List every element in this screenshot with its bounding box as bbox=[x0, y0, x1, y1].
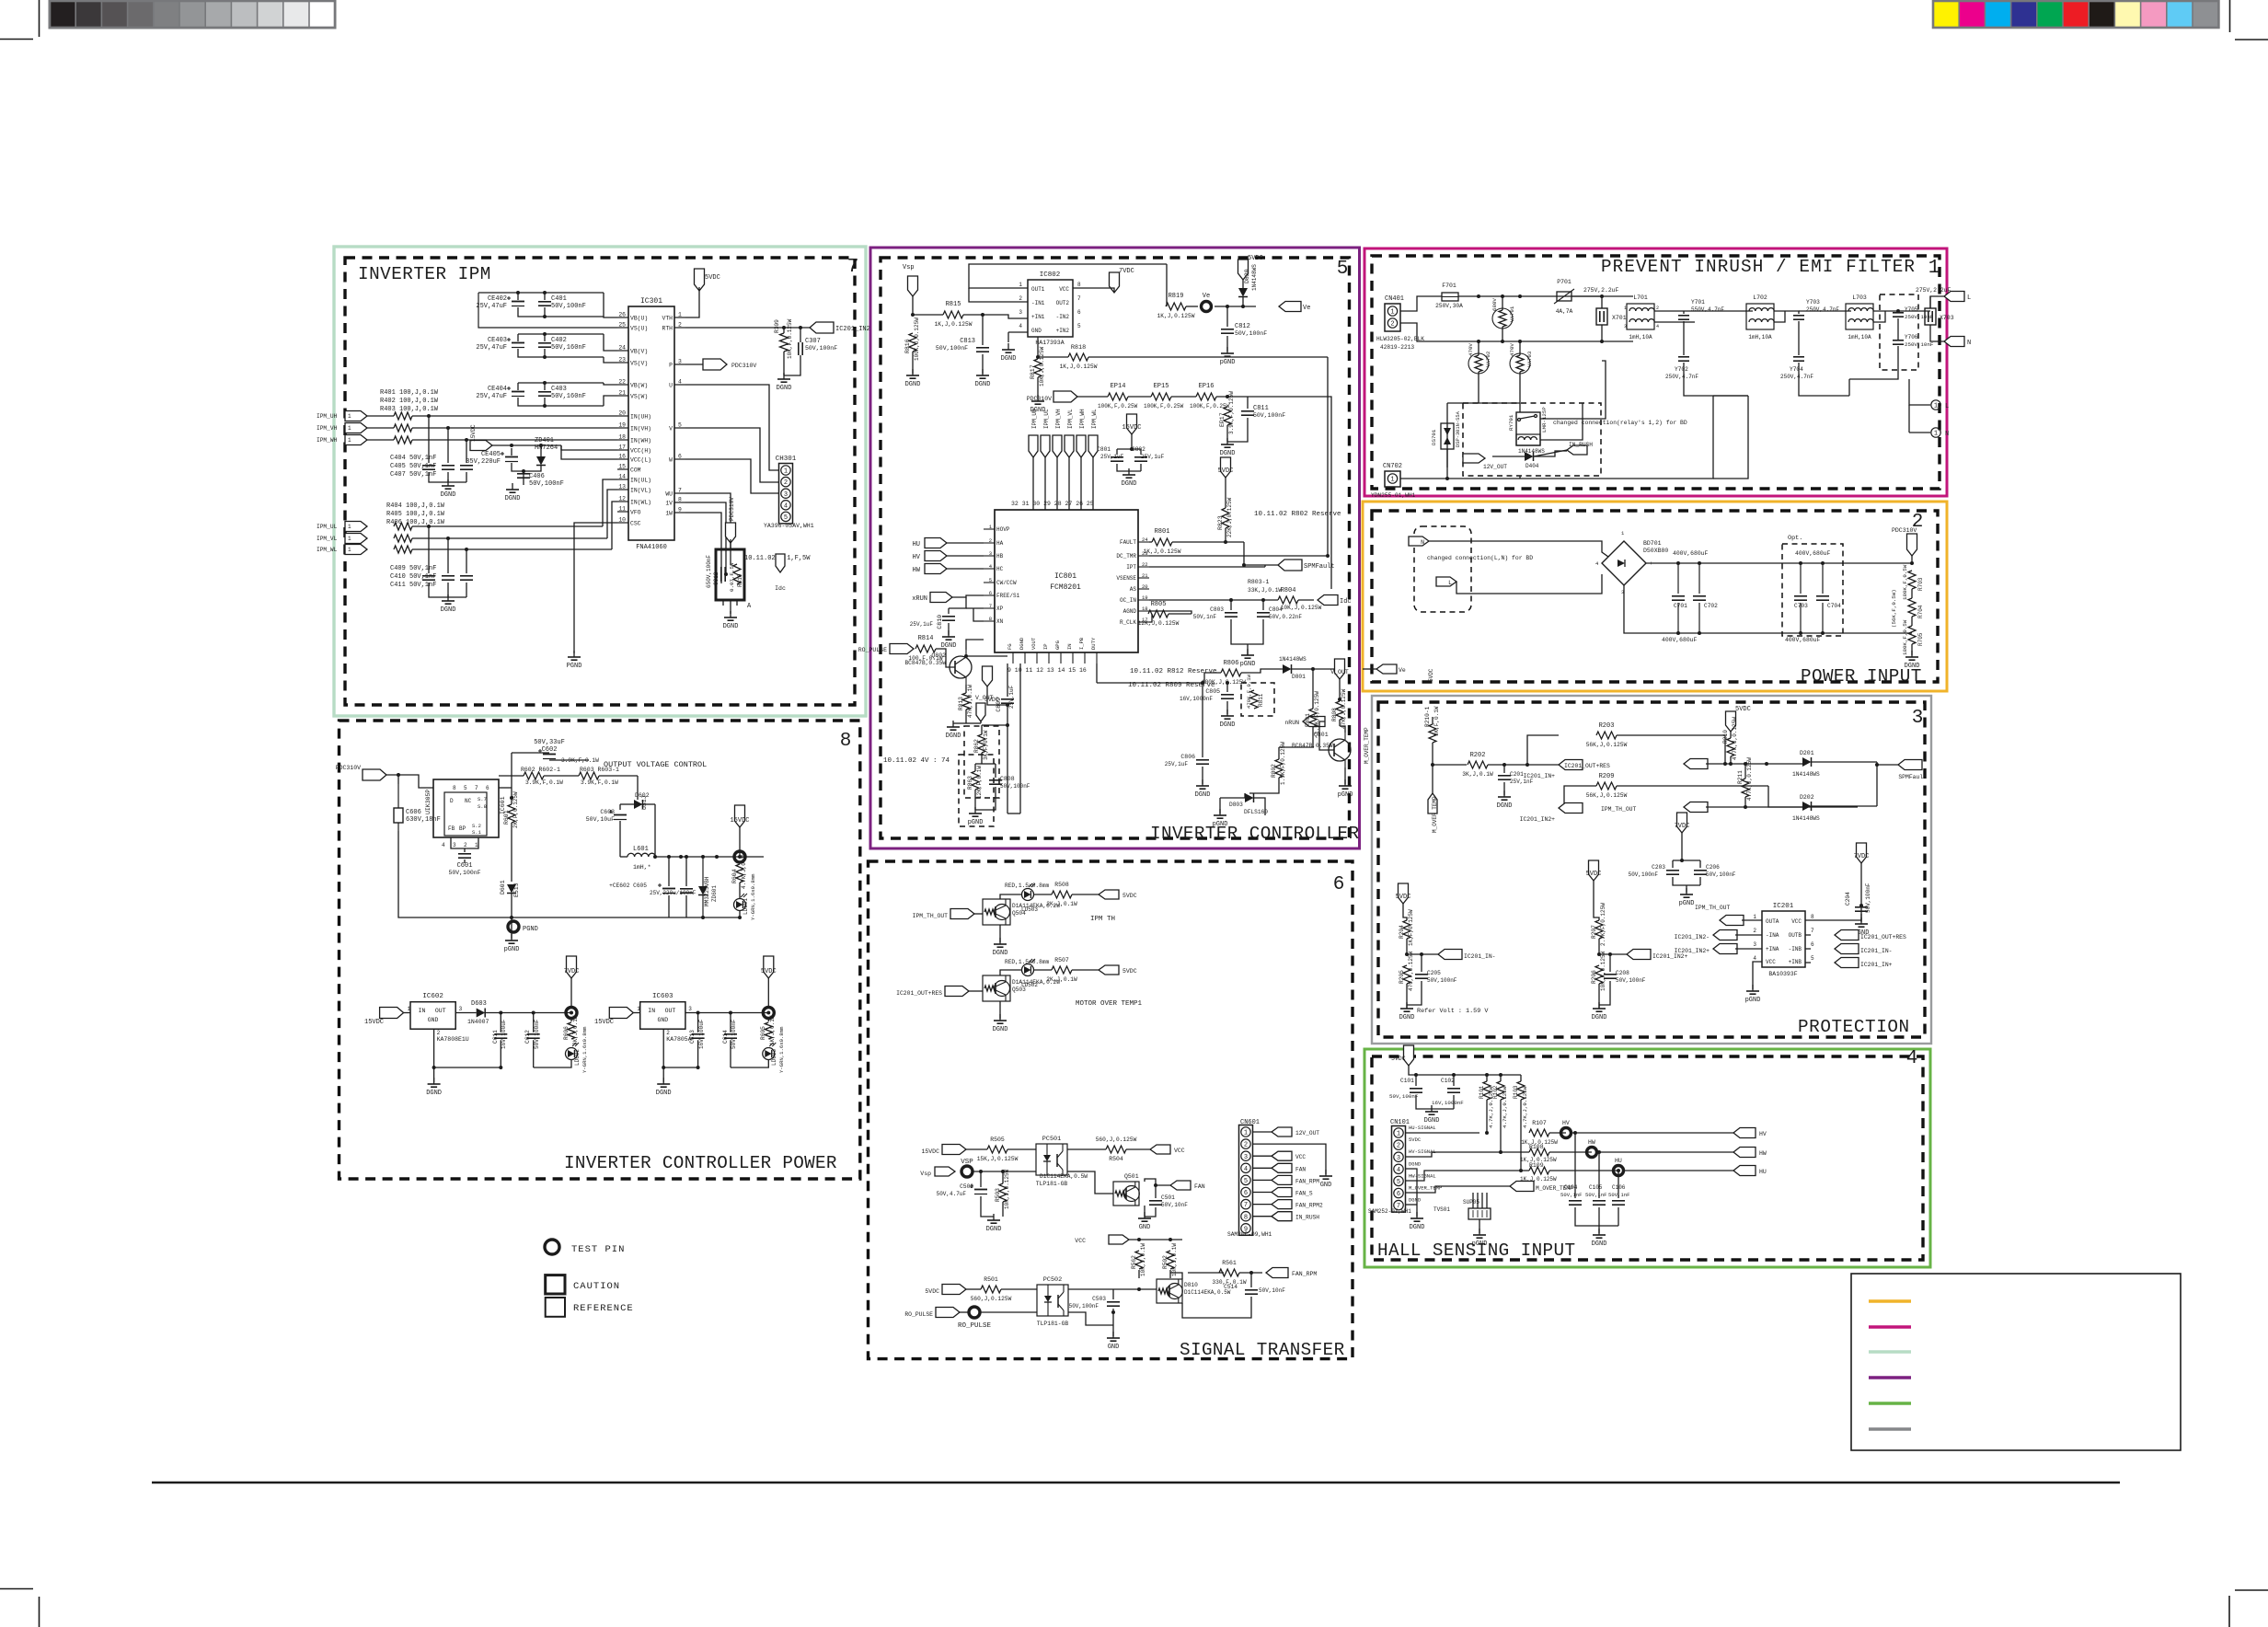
svg-text:OUTA: OUTA bbox=[1766, 918, 1779, 925]
svg-text:Y-GRN,1.6x0.8mm: Y-GRN,1.6x0.8mm bbox=[750, 873, 756, 920]
svg-text:10.11.02 R812 Reserve: 10.11.02 R812 Reserve bbox=[1130, 668, 1217, 675]
resistor R562 bbox=[1135, 1251, 1143, 1269]
resistor R819 bbox=[1166, 303, 1186, 310]
wire c514 bbox=[1250, 1273, 1252, 1287]
resistor R811v bbox=[1250, 690, 1258, 709]
svg-text:R210: R210 bbox=[1722, 730, 1729, 744]
wire q503 bbox=[969, 990, 983, 992]
svg-text:1.5K,F,0.125W: 1.5K,F,0.125W bbox=[1314, 691, 1320, 734]
ground pGND r863 bbox=[974, 807, 976, 813]
LED LD603 bbox=[763, 1048, 775, 1060]
wire caps upper bbox=[428, 416, 430, 463]
svg-text:650V,100nF: 650V,100nF bbox=[706, 555, 712, 588]
capacitor C806 bbox=[1196, 759, 1209, 761]
capacitor C102 bbox=[1447, 1088, 1460, 1090]
wire ce602 bbox=[668, 857, 670, 886]
svg-text:C801: C801 bbox=[1097, 446, 1111, 453]
tag IC201_IN2 bbox=[810, 322, 834, 333]
wire c801 bbox=[1131, 434, 1133, 449]
wire mover bbox=[1406, 1186, 1510, 1193]
svg-text:R603 R603-1: R603 R603-1 bbox=[580, 767, 619, 773]
svg-text:4.7K,J,0.125W: 4.7K,J,0.125W bbox=[1746, 757, 1753, 801]
power tag 5VDC sec3 bbox=[1726, 711, 1736, 732]
svg-text:WU: WU bbox=[665, 491, 673, 498]
svg-text:CSC: CSC bbox=[630, 521, 641, 527]
svg-text:47K,J,0.125W: 47K,J,0.125W bbox=[1341, 688, 1347, 729]
svg-text:IC201_IN+: IC201_IN+ bbox=[1860, 962, 1893, 968]
svg-text:IC201_IN2+: IC201_IN2+ bbox=[1520, 816, 1556, 823]
svg-text:KA7808E1U: KA7808E1U bbox=[437, 1036, 469, 1043]
IC801 left pins bbox=[984, 528, 995, 530]
svg-text:L: L bbox=[1945, 403, 1949, 410]
resistor R606 bbox=[568, 1022, 575, 1039]
svg-text:19: 19 bbox=[618, 422, 626, 429]
resistor R405 bbox=[394, 535, 412, 542]
tag HV sec5 bbox=[925, 551, 947, 561]
wire c201 bbox=[1503, 765, 1505, 773]
diode D202 bbox=[1802, 802, 1812, 811]
svg-text:C101: C101 bbox=[1400, 1078, 1414, 1084]
svg-text:7: 7 bbox=[1244, 1202, 1248, 1209]
svg-text:3.9K,F,0.125W: 3.9K,F,0.125W bbox=[1228, 391, 1235, 434]
resistor R863 bbox=[972, 771, 979, 790]
svg-text:7VDC: 7VDC bbox=[1675, 823, 1690, 830]
svg-text:250V,10nF: 250V,10nF bbox=[1905, 314, 1934, 320]
svg-text:10K,J,0.1W: 10K,J,0.1W bbox=[1171, 1243, 1178, 1276]
tag 12V_OUT bbox=[1463, 454, 1485, 463]
svg-text:C203: C203 bbox=[1652, 864, 1665, 871]
wire r211 bbox=[1744, 764, 1746, 779]
svg-text:C702: C702 bbox=[1704, 603, 1718, 609]
resistor R507 bbox=[1052, 966, 1072, 974]
IC801 right pins bbox=[1138, 541, 1149, 543]
svg-text:50V,100nF: 50V,100nF bbox=[1865, 883, 1871, 913]
svg-text:R109: R109 bbox=[1529, 1162, 1544, 1169]
svg-text:1mH,10A: 1mH,10A bbox=[1629, 334, 1652, 340]
svg-text:50V,160nF: 50V,160nF bbox=[551, 344, 586, 352]
svg-text:Idc: Idc bbox=[1340, 598, 1352, 606]
wire cn702 bbox=[1400, 478, 1447, 479]
capacitor Y705 bbox=[1893, 312, 1904, 314]
tag IC201_IN- c bbox=[1835, 944, 1859, 954]
svg-text:5: 5 bbox=[1811, 955, 1814, 962]
svg-text:pGND: pGND bbox=[1472, 1240, 1488, 1248]
grayscale calibration bar bbox=[50, 1, 335, 28]
wire CE404 group bbox=[517, 383, 519, 390]
wire 1W down bbox=[685, 513, 721, 583]
svg-text:25V,1uF: 25V,1uF bbox=[910, 621, 934, 628]
svg-text:1: 1 bbox=[348, 536, 351, 542]
section 2 group bbox=[1363, 526, 1924, 682]
tag M_OVER_TEMP sec4 bbox=[1510, 1182, 1534, 1192]
svg-text:DUTY: DUTY bbox=[1090, 637, 1097, 650]
svg-text:Y706: Y706 bbox=[1905, 334, 1918, 340]
svg-text:CH301: CH301 bbox=[776, 456, 797, 463]
svg-text:20: 20 bbox=[1142, 583, 1148, 590]
svg-text:NC: NC bbox=[465, 798, 472, 804]
capacitor Y703 bbox=[1793, 315, 1804, 317]
wire d820 bbox=[1242, 280, 1244, 288]
capacitor C205 bbox=[1415, 974, 1428, 975]
svg-text:2K,J,0.1W: 2K,J,0.1W bbox=[572, 1015, 579, 1045]
svg-text:6: 6 bbox=[1397, 1191, 1400, 1198]
wire r823 bbox=[1225, 478, 1226, 508]
tag Ve out bbox=[1279, 302, 1301, 312]
wire d803 bbox=[1244, 793, 1246, 798]
wire c803 bbox=[1230, 600, 1232, 610]
svg-text:25V,1uF: 25V,1uF bbox=[1100, 454, 1124, 460]
svg-text:D820: D820 bbox=[1244, 269, 1250, 283]
capacitor C406 bbox=[517, 473, 530, 475]
svg-text:15VDC: 15VDC bbox=[470, 424, 477, 442]
svg-text:IPM_WH: IPM_WH bbox=[1079, 409, 1086, 429]
svg-text:PGND: PGND bbox=[523, 926, 538, 933]
svg-text:5VDC: 5VDC bbox=[1396, 894, 1411, 901]
tag HU sec5 bbox=[925, 538, 947, 548]
svg-text:RED,1.5x0.8mm: RED,1.5x0.8mm bbox=[1005, 883, 1050, 889]
svg-text:VCC: VCC bbox=[1075, 1238, 1086, 1244]
wire r862 net bbox=[981, 725, 983, 734]
LED LD602 bbox=[566, 1048, 578, 1060]
svg-text:IN(VH): IN(VH) bbox=[630, 426, 651, 433]
LED LD601 bbox=[734, 899, 746, 911]
tag IC201_IN+ c bbox=[1835, 958, 1859, 968]
ground pGND ic201 bbox=[1752, 985, 1754, 991]
svg-text:FREE/S1: FREE/S1 bbox=[996, 593, 1020, 599]
svg-text:RTH: RTH bbox=[662, 326, 673, 332]
wire hall hv bbox=[1406, 1152, 1529, 1157]
svg-text:10K,F,0.125W: 10K,F,0.125W bbox=[1600, 951, 1606, 991]
capacitor C801 C802 bbox=[1111, 456, 1123, 458]
wire relay stub bbox=[1492, 456, 1525, 457]
caution dashed box R863 bbox=[959, 755, 994, 826]
tags IPM_xx column bbox=[1029, 435, 1038, 457]
wire r561 bbox=[1239, 1272, 1262, 1274]
svg-text:4: 4 bbox=[1906, 1048, 1918, 1069]
svg-text:+INB: +INB bbox=[1789, 959, 1802, 965]
svg-text:9 10 11 12 13 14 15 16: 9 10 11 12 13 14 15 16 bbox=[1007, 667, 1087, 674]
svg-text:R203: R203 bbox=[1599, 722, 1615, 730]
svg-text:C409 50V,1nF: C409 50V,1nF bbox=[390, 565, 436, 572]
transistor Q503 bbox=[983, 975, 1010, 1001]
svg-text:50V,0.22nF: 50V,0.22nF bbox=[1269, 614, 1302, 620]
tag Vsp sec6 bbox=[935, 1167, 955, 1176]
svg-text:GND: GND bbox=[1320, 1182, 1332, 1189]
tag HW out bbox=[1733, 1148, 1756, 1158]
wire r205 bbox=[1406, 964, 1408, 966]
svg-text:DGND: DGND bbox=[1122, 480, 1137, 488]
svg-text:VCC(L): VCC(L) bbox=[630, 457, 651, 464]
svg-text:1N4148WS: 1N4148WS bbox=[1792, 771, 1820, 778]
svg-text:Y705: Y705 bbox=[1905, 306, 1918, 313]
svg-text:1: 1 bbox=[678, 312, 682, 318]
svg-text:R605: R605 bbox=[760, 1026, 766, 1040]
wire r202 out bbox=[1488, 764, 1559, 766]
svg-text:FG: FG bbox=[1007, 643, 1013, 650]
tag IPM_TH_OUT b bbox=[1720, 916, 1744, 926]
IC801 bottom pins bbox=[1012, 652, 1014, 663]
svg-text:4: 4 bbox=[442, 842, 445, 848]
wire va701 bbox=[1502, 296, 1503, 310]
svg-text:8: 8 bbox=[453, 785, 456, 791]
inductor L601 bbox=[627, 853, 635, 857]
svg-text:50V,100nF: 50V,100nF bbox=[1427, 977, 1457, 984]
svg-text:C405 50V,1nF: C405 50V,1nF bbox=[390, 463, 436, 470]
svg-text:17: 17 bbox=[618, 444, 626, 451]
svg-text:1mH,10A: 1mH,10A bbox=[1748, 334, 1772, 340]
svg-text:C201: C201 bbox=[1510, 771, 1524, 778]
svg-text:50V,10nF: 50V,10nF bbox=[1161, 1202, 1188, 1208]
svg-text:Q501: Q501 bbox=[1124, 1173, 1139, 1180]
svg-text:25V,220u/100nF: 25V,220u/100nF bbox=[650, 890, 697, 896]
svg-text:1: 1 bbox=[408, 1006, 411, 1012]
svg-text:1: 1 bbox=[637, 1006, 640, 1012]
svg-text:Y701: Y701 bbox=[1691, 299, 1705, 306]
connector CN401 bbox=[1385, 304, 1400, 331]
resistor R703 bbox=[1908, 571, 1916, 589]
wire tag column to IC801 bbox=[1032, 457, 1034, 510]
svg-text:HW: HW bbox=[1759, 1150, 1767, 1157]
svg-text:CN702: CN702 bbox=[1383, 463, 1402, 470]
ground DGND c810 bbox=[948, 630, 950, 637]
resistor R102 bbox=[1497, 1081, 1504, 1100]
tag N out bbox=[1944, 337, 1964, 347]
wire spm bbox=[1244, 564, 1278, 566]
svg-text:C613: C613 bbox=[689, 1030, 696, 1044]
svg-text:R808: R808 bbox=[1331, 708, 1338, 721]
svg-text:HU: HU bbox=[1759, 1169, 1767, 1175]
tag IC201_IN+ a bbox=[1559, 760, 1583, 770]
color calibration bar bbox=[1933, 1, 2218, 28]
svg-text:1: 1 bbox=[1397, 1131, 1400, 1138]
svg-text:RO_PULSE: RO_PULSE bbox=[904, 1311, 933, 1318]
svg-text:5: 5 bbox=[1077, 323, 1081, 329]
svg-text:2.7K,F,0.125W: 2.7K,F,0.125W bbox=[1600, 903, 1606, 946]
svg-text:50V,100nF: 50V,100nF bbox=[1706, 871, 1736, 878]
reference dashed box LN bbox=[1414, 526, 1471, 612]
wire d601 dn bbox=[511, 894, 512, 917]
wire cn401 top bbox=[1400, 296, 1442, 311]
tag PDC310V sec8 bbox=[363, 769, 386, 780]
svg-text:VFO: VFO bbox=[630, 510, 641, 516]
svg-text:R863: R863 bbox=[967, 776, 973, 790]
svg-text:18: 18 bbox=[1142, 606, 1148, 612]
svg-text:5: 5 bbox=[784, 514, 788, 522]
wire CE402 to pin26 bbox=[517, 293, 519, 300]
svg-text:C410 50V,1nF: C410 50V,1nF bbox=[390, 573, 436, 581]
svg-text:VCC: VCC bbox=[1174, 1148, 1185, 1154]
resistor R602 bbox=[524, 772, 544, 779]
LED LD502 bbox=[1022, 964, 1034, 976]
svg-text:HB: HB bbox=[996, 553, 1004, 560]
resistor R817 bbox=[1034, 359, 1042, 377]
tag IC201_IN2+ a bbox=[1559, 803, 1583, 813]
capacitor CE602 C605 bbox=[662, 888, 675, 890]
svg-text:1K,J,0.125W: 1K,J,0.125W bbox=[935, 321, 973, 328]
svg-text:C809: C809 bbox=[996, 698, 1002, 712]
svg-text:IN(WH): IN(WH) bbox=[630, 438, 651, 444]
svg-text:C614: C614 bbox=[722, 1030, 729, 1044]
svg-text:LD601: LD601 bbox=[743, 898, 749, 915]
svg-text:C812: C812 bbox=[1235, 323, 1250, 330]
svg-text:IN(VL): IN(VL) bbox=[630, 488, 651, 494]
wire c601 bbox=[451, 837, 465, 852]
svg-text:50V,100nF: 50V,100nF bbox=[936, 345, 968, 352]
wire r210 node bbox=[1432, 717, 1433, 724]
resistor R805 bbox=[1148, 610, 1169, 617]
svg-text:IC201_IN-: IC201_IN- bbox=[1464, 953, 1496, 960]
svg-text:4.7K,J,0.125W: 4.7K,J,0.125W bbox=[1502, 1086, 1508, 1128]
svg-text:VS(V): VS(V) bbox=[630, 361, 648, 367]
svg-text:R804: R804 bbox=[1281, 587, 1296, 594]
svg-text:R_CLK: R_CLK bbox=[1120, 619, 1136, 626]
IC IC802 bbox=[1028, 280, 1073, 337]
resistor R501 bbox=[981, 1286, 1001, 1293]
svg-text:5: 5 bbox=[1337, 259, 1349, 280]
tag xRUN bbox=[930, 593, 952, 603]
svg-text:R814: R814 bbox=[918, 635, 934, 642]
svg-text:7: 7 bbox=[475, 785, 478, 791]
power tag 7VDC sec3 bbox=[1677, 813, 1687, 833]
capacitor C602 ecap bbox=[543, 754, 556, 756]
svg-text:FNA41060: FNA41060 bbox=[636, 544, 667, 551]
svg-text:25V,1uF: 25V,1uF bbox=[1165, 761, 1189, 767]
svg-text:C208: C208 bbox=[1616, 970, 1629, 976]
wire 15vdc sec8 bbox=[739, 827, 741, 857]
diode ZD401 bbox=[536, 456, 546, 466]
svg-text:R206: R206 bbox=[1591, 970, 1597, 984]
resistor R206 bbox=[1595, 965, 1603, 984]
svg-text:12K,J,0.125W: 12K,J,0.125W bbox=[1138, 620, 1180, 627]
wire l601 bbox=[620, 856, 627, 858]
wire hall hu bbox=[1406, 1132, 1479, 1134]
svg-text:21: 21 bbox=[618, 390, 626, 397]
wire r819 Ve bbox=[1186, 306, 1198, 307]
legend color line 1 bbox=[1869, 1299, 1911, 1302]
ground DGND c502 bbox=[993, 1214, 995, 1220]
wire d602 bbox=[637, 776, 639, 800]
svg-text:22K,J,0.125W: 22K,J,0.125W bbox=[1226, 497, 1233, 537]
svg-text:Y704: Y704 bbox=[1790, 366, 1803, 373]
resistor R504 bbox=[1106, 1146, 1126, 1153]
svg-text:R501: R501 bbox=[984, 1276, 998, 1283]
svg-text:DGND: DGND bbox=[1001, 355, 1017, 363]
svg-text:D603: D603 bbox=[471, 1000, 487, 1008]
tag 15VDC reg2 bbox=[609, 1008, 633, 1019]
LED LD503 bbox=[1022, 889, 1034, 901]
svg-text:6: 6 bbox=[1333, 874, 1345, 895]
wire y705 bbox=[1873, 310, 1898, 312]
tag M_OVER_TEMP sec3 bbox=[1428, 793, 1437, 813]
power tag 5VDC pc502 bbox=[942, 1285, 966, 1295]
svg-text:50V,1nF: 50V,1nF bbox=[1585, 1192, 1607, 1198]
capacitor C606 bbox=[394, 808, 403, 823]
wire IPM_UH to IC bbox=[367, 415, 394, 417]
svg-text:10.11.02 R802 Reserve: 10.11.02 R802 Reserve bbox=[1254, 511, 1341, 518]
svg-text:DGND: DGND bbox=[1592, 1014, 1607, 1021]
wire caps lower bbox=[428, 526, 430, 573]
ground pGND q801 bbox=[1344, 779, 1346, 786]
power tag 5VDC sec3b bbox=[1399, 883, 1409, 904]
svg-text:IC801: IC801 bbox=[1054, 572, 1076, 581]
svg-text:250V,4.7nF: 250V,4.7nF bbox=[1806, 306, 1839, 313]
capacitor Y704 bbox=[1793, 356, 1804, 358]
wire va702 bbox=[1478, 341, 1479, 355]
svg-text:YA396-05AV,WH1: YA396-05AV,WH1 bbox=[764, 523, 814, 529]
capacitor C812 bbox=[1221, 329, 1234, 330]
svg-text:2: 2 bbox=[666, 1030, 670, 1036]
svg-text:CN101: CN101 bbox=[1390, 1119, 1410, 1126]
svg-text:INVERTER IPM: INVERTER IPM bbox=[358, 264, 491, 284]
svg-text:C404 50V,1nF: C404 50V,1nF bbox=[390, 455, 436, 462]
resistor R808 bbox=[1336, 701, 1343, 720]
svg-text:DGND: DGND bbox=[1019, 637, 1025, 650]
svg-text:DGND: DGND bbox=[777, 385, 792, 392]
svg-text:1: 1 bbox=[1934, 403, 1938, 410]
svg-text:5VDC: 5VDC bbox=[925, 1288, 939, 1295]
wire c806 bbox=[1202, 683, 1203, 757]
tag Idc sec5 bbox=[1318, 595, 1338, 606]
capacitor CE404 bbox=[512, 391, 524, 393]
tag nRUN bbox=[1303, 717, 1325, 727]
svg-text:C514: C514 bbox=[1224, 1284, 1238, 1290]
resistor R207 bbox=[1595, 920, 1603, 939]
svg-text:X701: X701 bbox=[1612, 315, 1627, 321]
wire vsp sec6 bbox=[973, 1171, 1036, 1172]
svg-text:275V,2.2uF: 275V,2.2uF bbox=[1583, 287, 1619, 294]
svg-text:L702: L702 bbox=[1753, 294, 1767, 301]
svg-text:C603: C603 bbox=[600, 809, 615, 815]
svg-text:1V: 1V bbox=[665, 501, 673, 507]
svg-text:16V,1000nF: 16V,1000nF bbox=[1180, 696, 1213, 702]
svg-text:5: 5 bbox=[1397, 1179, 1400, 1186]
svg-text:C806: C806 bbox=[1180, 754, 1195, 760]
section 6 frame SIGNAL TRANSFER bbox=[869, 861, 1353, 1359]
legend color line 5 bbox=[1869, 1402, 1911, 1404]
svg-text:xRUN: xRUN bbox=[912, 595, 927, 603]
svg-text:5VDC: 5VDC bbox=[705, 274, 720, 282]
svg-text:RED,1.5x0.8mm: RED,1.5x0.8mm bbox=[1005, 959, 1050, 965]
wire in- node bbox=[1407, 953, 1438, 955]
svg-text:PDC310V: PDC310V bbox=[731, 363, 756, 369]
svg-text:10K,J,0.125W: 10K,J,0.125W bbox=[1004, 1169, 1010, 1209]
svg-text:25V,47uF: 25V,47uF bbox=[476, 344, 507, 352]
capacitor C502 ecap bbox=[974, 1189, 987, 1191]
wire 5vdc bus bbox=[1409, 1066, 1521, 1075]
wire caps sec4 bbox=[1574, 1133, 1576, 1198]
svg-text:16V,100uF: 16V,100uF bbox=[698, 1019, 705, 1049]
transistor Q501 bbox=[1113, 1182, 1139, 1206]
wire IPM_WL to IC bbox=[412, 548, 612, 550]
svg-text:R503: R503 bbox=[995, 1188, 1001, 1202]
capacitor C808 bbox=[989, 779, 1002, 781]
svg-text:C606: C606 bbox=[406, 809, 421, 816]
IC U301 IPM FNA41060 bbox=[628, 306, 674, 540]
svg-text:ZD601: ZD601 bbox=[711, 885, 718, 902]
svg-text:HV: HV bbox=[1562, 1120, 1570, 1126]
svg-text:21: 21 bbox=[1142, 572, 1148, 579]
power tag 5VDC sec5a bbox=[1238, 260, 1249, 280]
wire ic201 gnd pin bbox=[1753, 962, 1762, 989]
svg-text:C813: C813 bbox=[960, 338, 975, 345]
svg-text:VA701: VA701 bbox=[1509, 306, 1515, 322]
ground DGND c404 bbox=[447, 479, 449, 486]
svg-text:IC201_IN2: IC201_IN2 bbox=[835, 326, 870, 333]
resistor R604 bbox=[736, 864, 743, 883]
svg-text:10K,J,0.1W: 10K,J,0.1W bbox=[1140, 1243, 1146, 1276]
tag IPM_VL bbox=[345, 534, 367, 544]
svg-text:R811: R811 bbox=[1258, 693, 1264, 707]
